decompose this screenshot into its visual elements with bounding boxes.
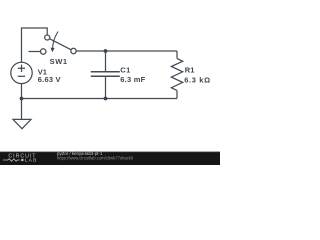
node junction below V1 [20,97,24,101]
wire R1 bottom stub [176,90,178,98]
capacitor C1 bottom plate [91,75,120,77]
resistor R1 zigzag [171,59,182,91]
svg-text:6.3 mF: 6.3 mF [120,75,145,84]
wire C1 top stub [105,51,107,72]
node junction C1 bottom [104,97,108,101]
svg-text:C1: C1 [120,66,130,75]
switch SW1 throw terminal (top) [45,35,50,40]
svg-text:SW1: SW1 [50,57,68,66]
CircuitLab logo zigzag [3,159,20,162]
switch SW1 actuation arrow [53,32,58,49]
switch arrow head [51,48,55,53]
watermark bar [0,152,220,166]
wire R1 top stub [176,51,178,59]
wire C1 bottom stub [105,76,107,98]
node junction C1 top [104,49,108,53]
voltage source V1 body [11,62,32,83]
ground symbol [13,119,31,128]
wire V1 top to corner [22,28,48,62]
CircuitLab logo word LAB [21,159,23,161]
switch SW1 open throw terminal [41,49,46,54]
switch SW1 open throw stub [29,51,41,53]
V1 minus sign [18,75,25,77]
svg-text:6.63 V: 6.63 V [38,75,61,84]
wire V1 bottom stub [21,84,23,99]
svg-text:LAB: LAB [25,158,38,164]
V1 plus sign [18,65,25,72]
svg-text:6.3 kΩ: 6.3 kΩ [184,75,211,84]
capacitor C1 top plate [91,71,120,73]
wire bottom rail [22,98,178,100]
wire to ground [21,99,23,120]
switch SW1 common terminal (right) [71,48,76,53]
svg-text:https://www.circuitlab.com/c9w: https://www.circuitlab.com/c9wb77shack6 [57,156,134,161]
switch SW1 blade [50,39,72,50]
svg-text:R1: R1 [185,66,195,75]
wire switch common to top rail [76,50,177,52]
